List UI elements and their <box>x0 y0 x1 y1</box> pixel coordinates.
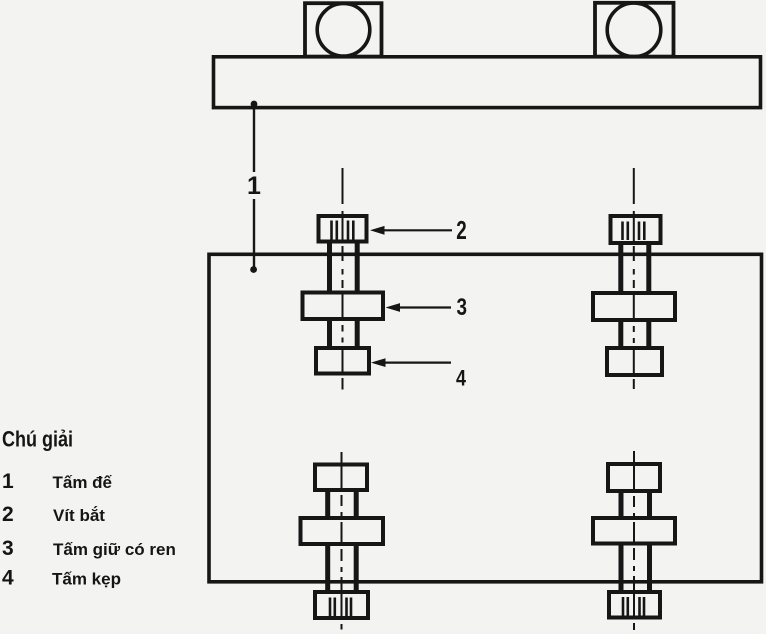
screw head lower-left <box>315 592 368 618</box>
leader line for label 1 (lower segment) <box>253 199 255 269</box>
label 4 <box>456 366 467 391</box>
screw head slot hatch lower-left <box>330 598 351 617</box>
leader line for label 1 (upper segment) <box>253 104 255 172</box>
clamp plate lower-left <box>315 465 367 491</box>
screw head upper-right <box>611 216 661 243</box>
screw shank upper-left, lower segment <box>330 319 358 348</box>
legend row 3 text Tấm giữ có ren <box>53 540 176 559</box>
legend row 1 number <box>2 470 14 493</box>
svg-text:1: 1 <box>247 172 261 200</box>
threaded holding plate lower-right <box>593 518 675 544</box>
svg-text:Tấm kẹp: Tấm kẹp <box>52 570 121 589</box>
legend row 4 text Tấm kẹp <box>52 570 121 589</box>
label 2 <box>456 215 467 245</box>
svg-text:Vít bắt: Vít bắt <box>53 506 105 525</box>
left bearing block <box>305 3 382 56</box>
screw shank lower-left, lower segment <box>328 544 357 592</box>
label 1 <box>247 172 261 200</box>
clamp plate upper-right <box>607 348 662 375</box>
clamp plate lower-right <box>608 464 660 491</box>
screw head slot hatch lower-right <box>623 597 644 616</box>
center line bolt lower-left <box>341 452 343 630</box>
arrow to screw head (label 2) <box>370 226 452 235</box>
svg-text:4: 4 <box>2 567 14 590</box>
screw shank lower-right, lower segment <box>621 544 650 593</box>
svg-text:Chú giải: Chú giải <box>2 427 73 452</box>
screw shank upper-right, lower segment <box>621 320 649 348</box>
legend heading Chú giải <box>2 427 73 452</box>
screw shank upper-right, upper segment <box>621 243 649 293</box>
svg-text:Tấm đế: Tấm đế <box>53 473 113 492</box>
screw shank upper-left, upper segment <box>330 243 358 293</box>
clamp plate upper-left (tấm kẹp 4) <box>316 348 369 374</box>
screw head slot hatch upper-right <box>623 222 645 241</box>
legend row 2 number <box>2 503 14 526</box>
screw shank lower-left, upper segment <box>328 490 357 518</box>
clamp body rectangle <box>209 254 762 582</box>
arrow to holding plate (label 3) <box>386 303 452 312</box>
base plate bar (tấm đế 1) <box>214 57 761 108</box>
legend row 4 number <box>2 567 14 590</box>
right bearing circle <box>607 3 661 57</box>
svg-text:4: 4 <box>456 366 467 391</box>
arrow to clamp plate (label 4) <box>371 358 451 367</box>
left bearing circle <box>317 4 370 57</box>
leader dot on clamp body <box>250 266 257 273</box>
svg-text:3: 3 <box>456 294 467 321</box>
legend row 1 text Tấm đế <box>53 473 113 492</box>
svg-text:2: 2 <box>456 215 467 245</box>
legend row 2 text Vít bắt <box>53 506 105 525</box>
center line bolt upper-left <box>342 168 344 390</box>
svg-text:2: 2 <box>2 503 14 526</box>
svg-text:Tấm giữ có ren: Tấm giữ có ren <box>53 540 176 559</box>
center line bolt upper-right <box>633 168 635 389</box>
threaded holding plate lower-left <box>301 518 384 544</box>
leader dot on base plate <box>251 101 258 108</box>
screw head lower-right <box>609 592 660 618</box>
screw head upper-left (vít bắt 2) <box>319 216 367 242</box>
threaded holding plate upper-right <box>593 293 675 320</box>
right bearing block <box>595 3 674 57</box>
screw head slot hatch upper-left <box>332 221 354 240</box>
screw shank lower-right, upper segment <box>621 491 650 518</box>
label 3 <box>456 294 467 321</box>
svg-text:3: 3 <box>2 537 14 560</box>
center line bolt lower-right <box>633 451 635 630</box>
svg-text:1: 1 <box>2 470 14 493</box>
legend row 3 number <box>2 537 14 560</box>
threaded holding plate upper-left (tấm giữ có ren 3) <box>303 293 384 320</box>
